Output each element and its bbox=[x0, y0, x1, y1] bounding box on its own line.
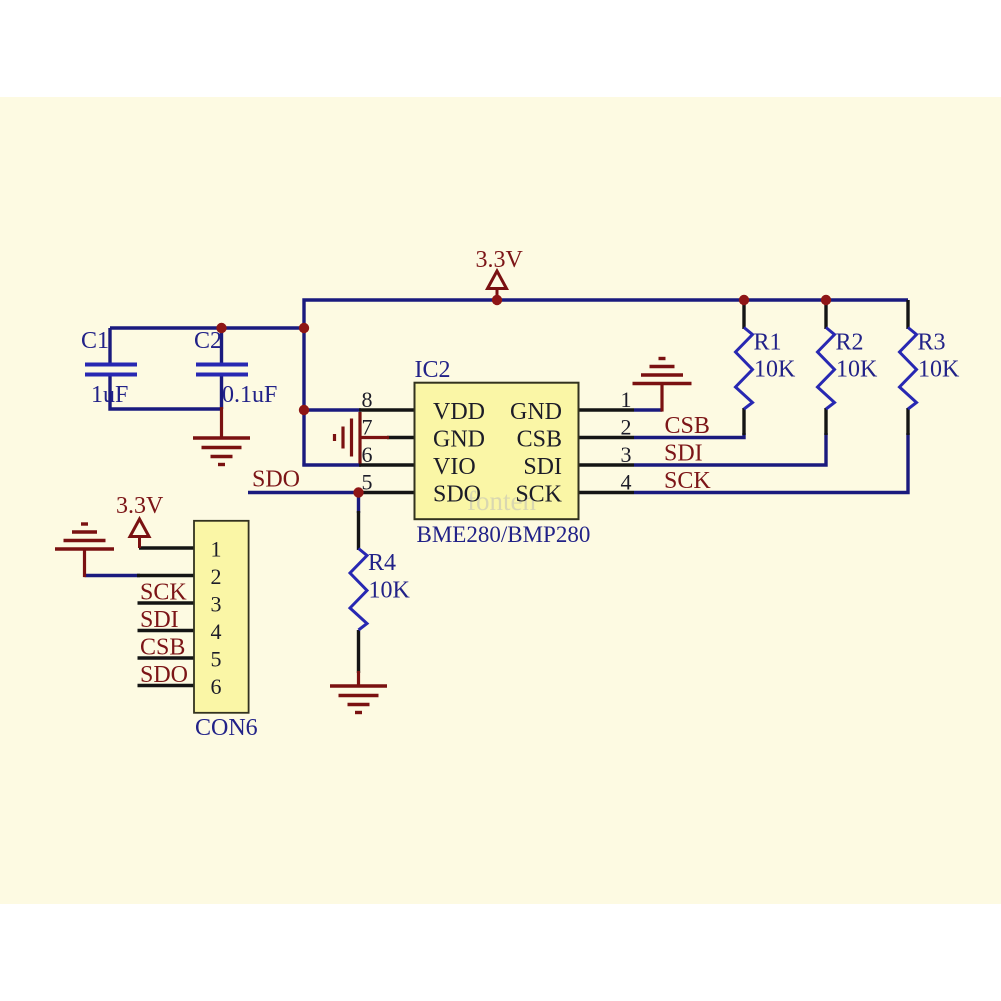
svg-text:VIO: VIO bbox=[433, 454, 476, 480]
svg-text:SDI: SDI bbox=[140, 607, 179, 633]
svg-text:2: 2 bbox=[621, 415, 632, 440]
svg-text:10K: 10K bbox=[836, 357, 878, 383]
svg-text:CON6: CON6 bbox=[195, 715, 258, 741]
svg-text:R4: R4 bbox=[368, 550, 396, 576]
svg-text:10K: 10K bbox=[754, 357, 796, 383]
svg-text:CSB: CSB bbox=[665, 413, 710, 439]
svg-text:R2: R2 bbox=[836, 330, 864, 356]
svg-text:5: 5 bbox=[362, 470, 373, 495]
svg-text:6: 6 bbox=[211, 674, 222, 699]
svg-text:SCK: SCK bbox=[664, 468, 711, 494]
svg-text:SCK: SCK bbox=[515, 482, 562, 508]
svg-text:GND: GND bbox=[433, 427, 485, 453]
svg-text:1uF: 1uF bbox=[91, 382, 128, 408]
svg-text:1: 1 bbox=[211, 537, 222, 562]
svg-text:SDI: SDI bbox=[664, 441, 703, 467]
svg-text:1: 1 bbox=[621, 387, 632, 412]
svg-text:3: 3 bbox=[621, 442, 632, 467]
svg-text:10K: 10K bbox=[918, 357, 960, 383]
svg-text:IC2: IC2 bbox=[415, 357, 451, 383]
svg-text:BME280/BMP280: BME280/BMP280 bbox=[417, 522, 591, 547]
svg-text:GND: GND bbox=[510, 399, 562, 425]
svg-text:SCK: SCK bbox=[140, 580, 187, 606]
svg-text:10K: 10K bbox=[369, 578, 411, 604]
svg-text:5: 5 bbox=[211, 647, 222, 672]
svg-text:R3: R3 bbox=[918, 330, 946, 356]
svg-text:2: 2 bbox=[211, 564, 222, 589]
svg-text:4: 4 bbox=[211, 619, 222, 644]
svg-text:C1: C1 bbox=[81, 328, 109, 354]
svg-text:3.3V: 3.3V bbox=[116, 493, 164, 519]
svg-text:SDO: SDO bbox=[140, 662, 188, 688]
svg-text:SDI: SDI bbox=[523, 454, 562, 480]
svg-text:0.1uF: 0.1uF bbox=[222, 382, 277, 408]
svg-text:4: 4 bbox=[621, 470, 632, 495]
svg-text:3: 3 bbox=[211, 592, 222, 617]
svg-text:SDO: SDO bbox=[252, 467, 300, 493]
svg-text:VDD: VDD bbox=[433, 399, 485, 425]
svg-text:7: 7 bbox=[362, 415, 373, 440]
svg-text:3.3V: 3.3V bbox=[476, 247, 524, 273]
svg-text:SDO: SDO bbox=[433, 482, 481, 508]
svg-text:8: 8 bbox=[362, 387, 373, 412]
svg-text:CSB: CSB bbox=[517, 427, 562, 453]
svg-text:C2: C2 bbox=[194, 328, 222, 354]
svg-text:R1: R1 bbox=[754, 330, 782, 356]
svg-text:6: 6 bbox=[362, 442, 373, 467]
svg-text:CSB: CSB bbox=[140, 635, 185, 661]
